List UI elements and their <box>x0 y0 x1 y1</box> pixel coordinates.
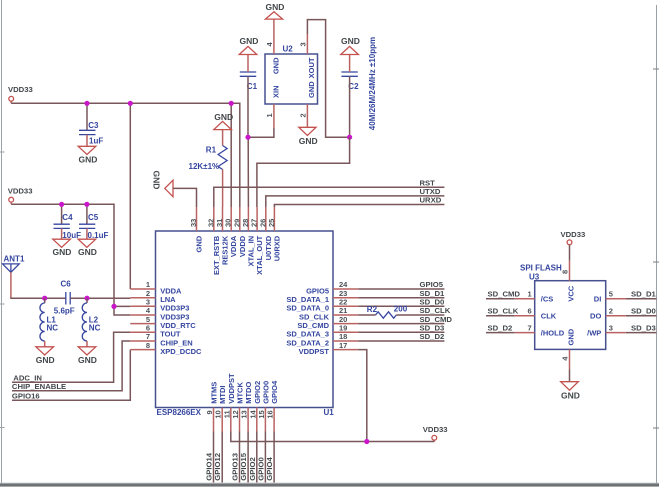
pin 2 LNA <box>130 289 176 304</box>
svg-text:SD_D2: SD_D2 <box>420 332 445 341</box>
svg-text:GND: GND <box>214 112 233 122</box>
svg-text:1uF: 1uF <box>89 137 103 146</box>
pin 25 U0RXD <box>267 207 282 261</box>
svg-text:40M/26M/24MHz ±10ppm: 40M/26M/24MHz ±10ppm <box>368 37 377 130</box>
svg-text:1: 1 <box>528 290 532 299</box>
wire CHIP_ENABLE to CHIP_EN <box>12 341 130 391</box>
wire SD_D0 <box>358 305 444 307</box>
svg-text:3: 3 <box>146 298 150 307</box>
power port VDD33 (mid-left) <box>8 187 33 205</box>
svg-text:SD_D3: SD_D3 <box>420 324 445 333</box>
node junction C1/XIN/pin28 <box>245 135 250 140</box>
wire RST to pin 32 <box>214 187 445 207</box>
capacitor C3 <box>79 121 103 146</box>
resistor R2 <box>367 305 408 318</box>
wire SD_D3 <box>358 331 444 333</box>
wire VDDPST pin17 to VDD33 <box>358 350 367 442</box>
wire GPIO14 <box>213 432 215 483</box>
sheet border right <box>656 5 658 485</box>
wire GPIO12 <box>221 432 223 483</box>
svg-text:6: 6 <box>146 324 150 333</box>
svg-text:28: 28 <box>241 219 250 227</box>
svg-text:C3: C3 <box>88 121 99 130</box>
wire VDD33 rail top <box>11 102 231 104</box>
wire XIN to C1 junction <box>248 128 274 137</box>
wire VDD3P3 pin3 tap <box>114 305 130 307</box>
svg-text:GND: GND <box>240 36 259 46</box>
svg-text:SD_D0: SD_D0 <box>420 298 445 307</box>
wire GPIO2 <box>256 432 258 483</box>
node junction pin30-drop/rail <box>229 101 234 106</box>
pin 8 VCC of U3 <box>560 261 575 302</box>
crystal U2 body <box>265 45 318 105</box>
svg-text:ADC_IN: ADC_IN <box>13 373 42 382</box>
wire SD_D2 to /HOLD <box>486 332 515 334</box>
svg-text:SD_D1: SD_D1 <box>631 290 657 299</box>
svg-text:XTAL_IN: XTAL_IN <box>246 236 255 267</box>
node junction L2 <box>84 296 89 301</box>
svg-text:7: 7 <box>528 324 532 333</box>
svg-text:URXD: URXD <box>420 196 442 205</box>
sheet border left <box>1 0 3 485</box>
svg-text:C5: C5 <box>88 213 99 222</box>
ground above R1 <box>214 112 233 130</box>
wire UTXD to pin 26 <box>266 196 445 207</box>
svg-text:GND: GND <box>561 390 580 400</box>
svg-text:31: 31 <box>215 219 224 227</box>
antenna ANT1 <box>3 255 25 273</box>
pin 1 VDDA <box>130 280 182 295</box>
svg-text:GND: GND <box>307 81 316 98</box>
wire /WP to SD_D3 <box>626 332 657 334</box>
pin 27 XTAL_OUT <box>250 207 265 275</box>
wire VDD33 drop to pin30 <box>230 103 232 207</box>
svg-text:ESP8266EX: ESP8266EX <box>157 408 202 417</box>
wire GPIO0 <box>264 432 266 483</box>
ground below U2 pin 2 <box>299 127 318 146</box>
pin 5 DI of U3 <box>594 290 626 304</box>
pin 10 MTDI <box>214 385 228 431</box>
pin 24 GPIO5 <box>306 280 358 295</box>
svg-text:C4: C4 <box>62 213 73 222</box>
wire GPIO4 <box>273 432 275 483</box>
pin 20 SD_CMD <box>297 315 358 330</box>
svg-text:/WP: /WP <box>587 329 601 338</box>
svg-text:U3: U3 <box>529 272 540 281</box>
pin 28 XTAL_IN <box>241 207 256 267</box>
svg-text:R2: R2 <box>367 305 378 314</box>
pin 8 XPD_DCDC <box>130 341 202 356</box>
svg-text:GND: GND <box>78 247 97 257</box>
svg-text:SD_D3: SD_D3 <box>631 324 656 333</box>
power port VDD33 (U3) <box>561 230 586 261</box>
wire VDDPST pin11 rail <box>231 432 434 442</box>
svg-text:NC: NC <box>47 324 59 333</box>
wire C1 to XTAL_IN <box>247 76 249 137</box>
svg-text:VDD33: VDD33 <box>561 230 586 239</box>
node junction C4/rail <box>59 202 64 207</box>
wire GPIO15 <box>247 432 249 483</box>
pin 19 SD_DATA_3 <box>286 324 358 339</box>
pin 13 MTDO <box>240 382 254 432</box>
svg-text:8: 8 <box>560 270 569 274</box>
svg-text:RES12K: RES12K <box>221 235 230 265</box>
svg-text:20: 20 <box>339 315 347 324</box>
pin 17 VDDPST <box>299 341 359 356</box>
ground below L2 <box>78 347 97 365</box>
pin 29 VDDD <box>232 207 247 257</box>
wire SD_D2 <box>358 340 444 342</box>
wire DO to SD_D0 <box>626 315 657 317</box>
node junction pin1-drop/rail <box>128 101 133 106</box>
wire GPIO5 <box>358 288 444 290</box>
svg-text:8: 8 <box>146 341 150 350</box>
pin 14 GPIO2 <box>248 381 261 432</box>
svg-text:22: 22 <box>339 298 347 307</box>
op-amp U1 ESP8266EX body <box>156 231 335 417</box>
pin 7 /HOLD of U3 <box>515 324 565 338</box>
svg-text:3: 3 <box>609 324 613 333</box>
pin 1 XIN of U2 <box>265 85 281 128</box>
svg-text:U1: U1 <box>324 408 335 417</box>
power port VDD33 (top-left) <box>8 85 33 103</box>
svg-text:GND: GND <box>53 247 72 257</box>
pin 6 TOUT <box>130 324 181 339</box>
node junction pin3 tap <box>111 304 116 309</box>
svg-text:GPIO14: GPIO14 <box>205 452 214 480</box>
svg-text:MTDO: MTDO <box>244 382 253 404</box>
svg-text:VDD33: VDD33 <box>423 425 448 434</box>
capacitor C4 <box>54 213 82 240</box>
pin 11 VDDPST <box>222 373 236 432</box>
svg-text:3: 3 <box>299 42 308 46</box>
pin 4 GND of U2 <box>265 19 281 74</box>
pin 1 /CS of U3 <box>515 290 554 304</box>
pin 2 GND of U2 <box>299 81 316 128</box>
ground below C4 <box>53 239 72 257</box>
pin 3 XOUT of U2 <box>299 34 316 78</box>
pin 3 /WP of U3 <box>587 324 626 338</box>
svg-text:24: 24 <box>339 280 348 289</box>
wire C4 drop <box>61 204 63 224</box>
svg-text:6: 6 <box>528 307 532 316</box>
inductor L2 <box>82 298 100 347</box>
wire GND to pin 33 <box>173 188 197 207</box>
wire VDD33 jog to pin29 <box>231 103 240 207</box>
svg-text:SD_CMD: SD_CMD <box>488 290 521 299</box>
svg-text:ANT1: ANT1 <box>4 255 25 264</box>
svg-text:GND: GND <box>195 235 204 252</box>
wire XOUT loop to C2 <box>307 20 349 138</box>
wire ANT1 to LNA <box>10 272 12 298</box>
svg-text:GPIO16: GPIO16 <box>12 392 40 401</box>
svg-text:CLK: CLK <box>541 312 557 321</box>
svg-text:SD_D2: SD_D2 <box>488 324 513 333</box>
wire DI to SD_D1 <box>626 298 657 300</box>
svg-text:25: 25 <box>267 219 276 227</box>
svg-text:XTAL_OUT: XTAL_OUT <box>255 235 264 274</box>
svg-text:EXT_RSTB: EXT_RSTB <box>212 235 221 275</box>
pin 23 SD_DATA_1 <box>286 289 358 304</box>
svg-text:CHIP_ENABLE: CHIP_ENABLE <box>12 382 66 391</box>
ground below C3 <box>78 146 97 164</box>
svg-text:SD_DATA_0: SD_DATA_0 <box>286 304 329 313</box>
svg-text:VDD_RTC: VDD_RTC <box>160 321 196 330</box>
svg-text:GPIO0: GPIO0 <box>261 381 270 404</box>
svg-text:GPIO4: GPIO4 <box>270 380 279 404</box>
svg-text:1: 1 <box>146 280 150 289</box>
svg-text:16: 16 <box>266 410 275 418</box>
wire SD_CLK to CLK <box>486 315 515 317</box>
svg-text:SPI FLASH: SPI FLASH <box>520 263 562 272</box>
pin 9 MTMS <box>205 382 219 432</box>
node junction L1 <box>42 296 47 301</box>
svg-text:13: 13 <box>240 410 249 418</box>
inductor L1 <box>40 298 58 347</box>
svg-text:U0RXD: U0RXD <box>272 235 281 261</box>
svg-text:2: 2 <box>299 113 308 117</box>
pin 30 VDDA <box>224 207 239 257</box>
svg-text:GPIO4: GPIO4 <box>265 456 274 480</box>
node junction C3/rail <box>84 101 89 106</box>
sheet border bottom <box>0 484 659 487</box>
resistor R1 <box>189 130 228 207</box>
pin 15 GPIO0 <box>257 381 271 432</box>
pin 5 VDD_RTC <box>130 315 196 330</box>
node junction C2/XOUT <box>347 135 352 140</box>
wire SD_D1 <box>358 297 444 299</box>
ground below U3 <box>561 382 580 401</box>
svg-text:GND: GND <box>79 155 98 165</box>
svg-text:SD_D0: SD_D0 <box>631 307 656 316</box>
wire URXD to pin 25 <box>274 205 444 208</box>
wire SD_CLK left <box>358 314 375 316</box>
node junction pin17/pin11 rail <box>364 439 369 444</box>
svg-text:VDD33: VDD33 <box>8 85 33 94</box>
svg-text:SD_CMD: SD_CMD <box>420 315 453 324</box>
svg-text:GPIO12: GPIO12 <box>213 453 222 481</box>
svg-text:DO: DO <box>590 312 601 321</box>
wire VDD33 rail mid <box>11 204 130 315</box>
ground above C2 <box>341 36 360 54</box>
svg-text:NC: NC <box>89 324 101 333</box>
pin 4 GND of U3 <box>560 328 575 369</box>
pin 4 VDD3P3 <box>130 306 189 321</box>
svg-text:MTMS: MTMS <box>210 382 219 404</box>
svg-text:XIN: XIN <box>272 85 281 98</box>
svg-text:/HOLD: /HOLD <box>541 329 565 338</box>
svg-text:19: 19 <box>339 324 347 333</box>
svg-text:XPD_DCDC: XPD_DCDC <box>160 347 202 356</box>
svg-text:15: 15 <box>257 410 266 418</box>
pin 3 VDD3P3 <box>130 298 189 313</box>
svg-text:SD_CMD: SD_CMD <box>297 321 329 330</box>
svg-text:VDDPST: VDDPST <box>227 373 236 404</box>
svg-text:VDDA: VDDA <box>160 286 182 295</box>
svg-text:2: 2 <box>609 307 613 316</box>
svg-text:VDD33: VDD33 <box>8 187 33 196</box>
svg-text:5: 5 <box>146 315 150 324</box>
svg-text:GPIO5: GPIO5 <box>306 286 329 295</box>
wire XTAL_OUT to pin 27 <box>257 137 350 207</box>
svg-text:GND: GND <box>266 2 285 12</box>
svg-text:5.6pF: 5.6pF <box>54 307 75 316</box>
svg-text:/CS: /CS <box>541 295 554 304</box>
wire SD_CLK right <box>396 314 444 316</box>
pin 21 SD_CLK <box>299 306 358 321</box>
pin 7 CHIP_EN <box>130 332 192 347</box>
ground below L1 <box>36 347 55 365</box>
svg-text:200: 200 <box>394 305 408 314</box>
svg-text:27: 27 <box>250 219 259 227</box>
svg-text:U2: U2 <box>283 45 294 54</box>
svg-text:32: 32 <box>206 219 215 227</box>
wire ADC_IN to TOUT <box>12 332 130 382</box>
svg-text:17: 17 <box>339 341 347 350</box>
capacitor C5 <box>79 213 109 240</box>
svg-text:C6: C6 <box>61 280 72 289</box>
svg-text:0.1uF: 0.1uF <box>88 231 109 240</box>
svg-text:GPIO15: GPIO15 <box>239 452 248 480</box>
ground above U2 pin 4 <box>265 2 284 19</box>
svg-text:GPIO0: GPIO0 <box>256 457 265 481</box>
pin 16 GPIO4 <box>266 380 280 431</box>
wire SD_CMD <box>358 323 444 325</box>
wire C6 to LNA pin2 <box>70 297 130 299</box>
svg-text:GPIO5: GPIO5 <box>420 280 444 289</box>
svg-text:5: 5 <box>609 290 613 299</box>
wire GPIO16 to XPD_DCDC <box>12 350 130 401</box>
capacitor C2 <box>341 55 359 91</box>
wire C2 down <box>349 76 351 137</box>
svg-text:GND: GND <box>567 328 576 345</box>
svg-text:10uF: 10uF <box>62 231 81 240</box>
svg-text:RST: RST <box>420 178 436 187</box>
pin 26 U0TXD <box>258 207 273 260</box>
svg-text:9: 9 <box>205 410 214 414</box>
wire U3 GND down <box>569 369 571 381</box>
wire SD_CMD to /CS <box>486 298 515 300</box>
pin 33 GND <box>189 207 204 252</box>
svg-text:33: 33 <box>189 219 198 227</box>
flash U3 body <box>520 263 606 349</box>
wire C5 drop <box>86 204 88 224</box>
svg-text:GND: GND <box>272 57 281 74</box>
svg-text:SD_CLK: SD_CLK <box>488 307 519 316</box>
pin 31 RES12K <box>215 207 230 265</box>
svg-text:SD_DATA_3: SD_DATA_3 <box>286 330 329 339</box>
svg-text:DI: DI <box>594 295 602 304</box>
svg-text:GND: GND <box>299 136 318 146</box>
ground below C5 <box>78 239 97 257</box>
svg-text:11: 11 <box>222 410 231 418</box>
svg-text:GND: GND <box>152 171 162 190</box>
wire VDD33 drop to pin1 VDDA <box>129 103 131 289</box>
pin 18 SD_DATA_2 <box>286 332 358 347</box>
svg-text:GND: GND <box>36 355 55 365</box>
ground left of pin 33 <box>152 171 174 197</box>
svg-text:VDDPST: VDDPST <box>299 347 330 356</box>
svg-text:1: 1 <box>265 113 274 117</box>
wire VDD33 drop to C3 <box>86 103 88 130</box>
svg-text:VCC: VCC <box>567 285 576 301</box>
pin 6 CLK of U3 <box>515 307 557 321</box>
svg-text:R1: R1 <box>206 145 217 154</box>
capacitor C1 <box>240 55 258 91</box>
pin 22 SD_DATA_0 <box>286 298 358 313</box>
svg-text:GND: GND <box>341 36 360 46</box>
svg-text:12K±1%: 12K±1% <box>189 162 220 171</box>
pin 2 DO of U3 <box>590 307 626 321</box>
svg-text:GND: GND <box>78 355 97 365</box>
wire GPIO13 <box>239 432 241 483</box>
ground above C1 <box>239 36 258 54</box>
svg-text:XOUT: XOUT <box>307 57 316 78</box>
svg-text:VDD3P3: VDD3P3 <box>160 304 189 313</box>
node junction C5/rail <box>84 202 89 207</box>
power port VDD33 (bottom) <box>423 425 448 442</box>
pin 32 EXT_RSTB <box>206 207 221 275</box>
pin 12 MTCK <box>231 382 245 432</box>
capacitor C6 <box>54 280 75 316</box>
svg-text:TOUT: TOUT <box>160 330 181 339</box>
